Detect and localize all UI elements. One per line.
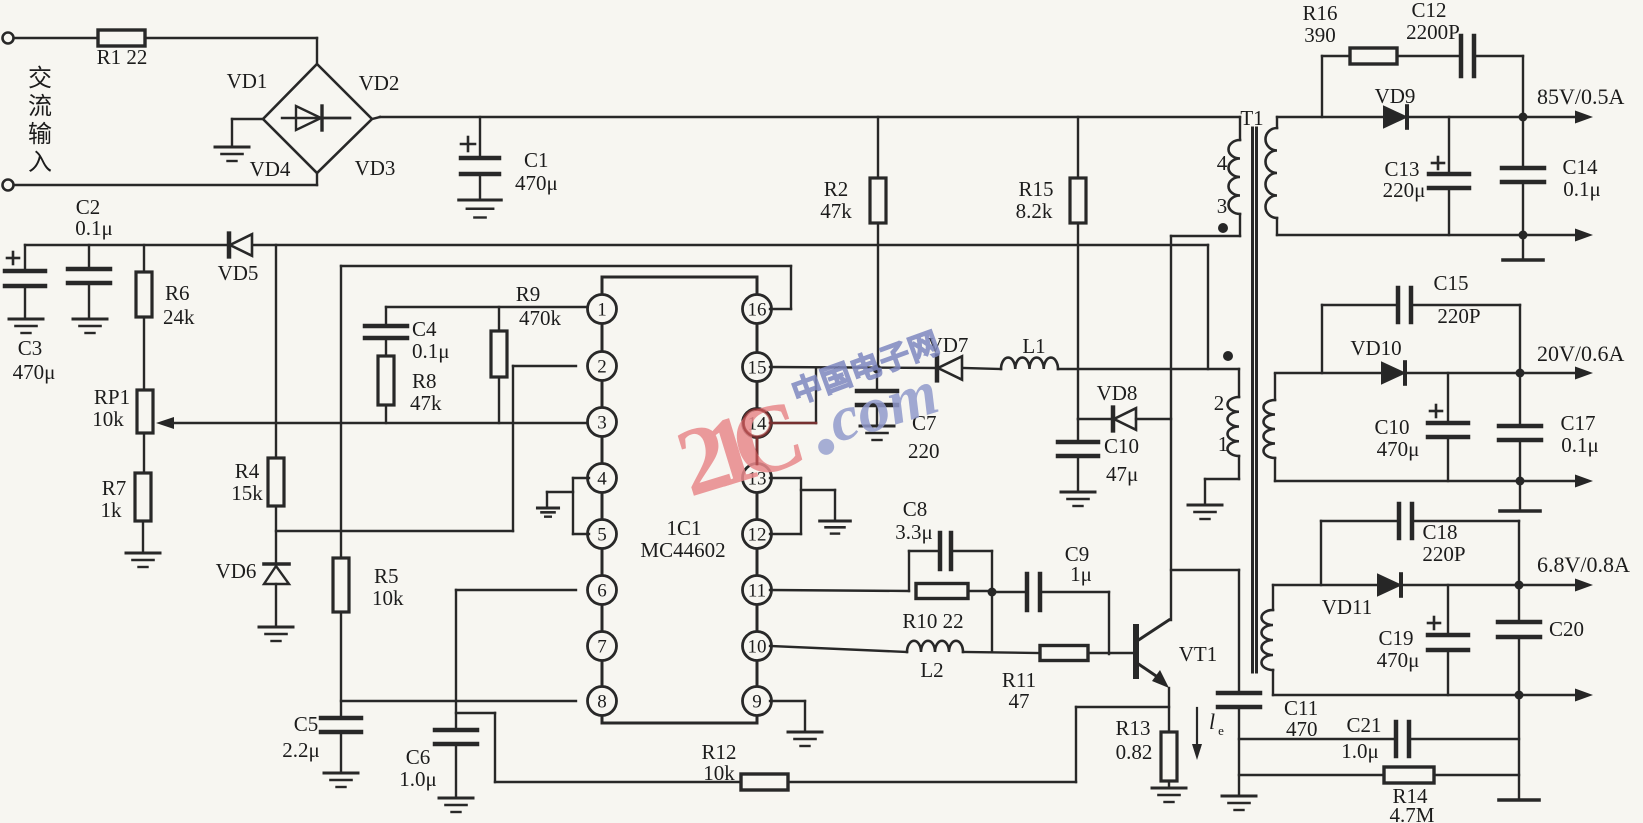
capacitor C21: [1396, 722, 1409, 756]
label C19 470u: [1377, 626, 1420, 672]
capacitor C19 (polarized): [1428, 585, 1468, 695]
svg-text:VT1: VT1: [1179, 642, 1218, 666]
IC pin 7: [588, 632, 617, 661]
wire 20V ground stub: [1519, 481, 1521, 509]
output arrow 85V: [1523, 111, 1593, 124]
wire collector to C11: [1171, 570, 1239, 691]
svg-text:47: 47: [1009, 689, 1030, 713]
capacitor C20: [1498, 585, 1540, 695]
svg-text:470k: 470k: [519, 306, 562, 330]
svg-text:T1: T1: [1240, 106, 1263, 130]
label T1: [1240, 106, 1263, 130]
wire pin9 to ground: [770, 701, 805, 730]
svg-text:R15: R15: [1018, 177, 1053, 201]
label C21 1.0u: [1341, 713, 1381, 763]
capacitor C6: [435, 730, 477, 796]
wire 85V ground stub: [1522, 235, 1524, 258]
label R14 4.7M: [1390, 784, 1435, 823]
ground below C10 47u: [1061, 492, 1095, 506]
label VD5: [218, 261, 259, 285]
svg-text:VD8: VD8: [1097, 381, 1138, 405]
capacitor C17: [1499, 373, 1541, 481]
wire pin14 link: [770, 368, 816, 423]
IC pin 5: [588, 520, 617, 549]
secondary winding 20V: [1264, 374, 1276, 481]
svg-text:入: 入: [28, 150, 52, 176]
label VD1: [227, 69, 268, 93]
svg-text:VD5: VD5: [218, 261, 259, 285]
snubber tap left: [1322, 56, 1350, 117]
label L2: [920, 658, 943, 682]
diode VD11: [1378, 574, 1401, 596]
ground pins 13-12: [820, 521, 851, 534]
svg-text:C17: C17: [1560, 411, 1595, 435]
current arrow Ie: [1192, 708, 1224, 760]
svg-text:0.1μ: 0.1μ: [75, 216, 113, 240]
transistor VT1: [1136, 620, 1169, 688]
ground below bridge left: [215, 147, 249, 161]
IC pin 9: [743, 687, 772, 716]
label R6 24k: [163, 281, 195, 329]
label 2: [1214, 391, 1225, 415]
zener diode VD6: [264, 564, 289, 625]
svg-text:15: 15: [748, 358, 767, 379]
capacitor C2: [68, 245, 110, 317]
svg-text:1μ: 1μ: [1070, 562, 1092, 586]
wire bottom input to bridge: [14, 173, 317, 185]
svg-text:5: 5: [597, 525, 607, 546]
svg-text:2: 2: [597, 357, 607, 378]
snubber C18 tap: [1321, 521, 1397, 585]
capacitor C10 470u (polarized): [1428, 373, 1468, 481]
inductor L2: [907, 641, 963, 652]
svg-text:VD11: VD11: [1322, 595, 1373, 619]
svg-text:VD6: VD6: [216, 559, 257, 583]
svg-text:C8: C8: [903, 497, 928, 521]
svg-text:16: 16: [748, 300, 767, 321]
IC pin 11: [743, 576, 772, 605]
svg-text:6.8V/0.8A: 6.8V/0.8A: [1537, 552, 1630, 577]
svg-text:R4: R4: [235, 459, 260, 483]
ground bar bottom right: [1499, 798, 1539, 802]
wire R13 to ground: [1168, 781, 1170, 786]
wire R7 to ground: [142, 521, 144, 551]
label R5 10k: [372, 564, 404, 610]
svg-text:24k: 24k: [163, 305, 195, 329]
label C10 47u: [1104, 434, 1139, 486]
wire 85V top line: [1277, 116, 1384, 118]
svg-text:470μ: 470μ: [1377, 648, 1420, 672]
label R15 8.2k: [1016, 177, 1054, 223]
svg-text:10k: 10k: [372, 586, 404, 610]
resistor R2: [870, 178, 886, 223]
wire top input to R1: [14, 37, 98, 39]
svg-text:VD3: VD3: [355, 156, 396, 180]
wire collector line lower: [1170, 419, 1172, 620]
svg-text:220P: 220P: [1422, 542, 1465, 566]
svg-text:12: 12: [748, 525, 767, 546]
ground below R13: [1152, 788, 1186, 802]
svg-text:交: 交: [28, 65, 52, 92]
label C9 1u: [1065, 542, 1092, 586]
wire pin8 line: [341, 700, 576, 702]
wire C12 to output node: [1476, 56, 1523, 117]
svg-text:C5: C5: [294, 712, 319, 736]
svg-text:R6: R6: [165, 281, 190, 305]
ground below C7: [860, 426, 894, 440]
label R9 470k: [516, 282, 562, 330]
svg-text:470μ: 470μ: [1377, 437, 1420, 461]
resistor R8: [378, 356, 394, 405]
label R8 47k: [410, 369, 442, 415]
capacitor C14: [1502, 117, 1544, 235]
label C6 1.0u: [399, 745, 437, 791]
diode VD7: [937, 356, 962, 381]
svg-text:9: 9: [752, 692, 762, 713]
label AC input (交流输入): [28, 65, 52, 176]
wire R16 to C12: [1397, 55, 1459, 57]
svg-text:11: 11: [748, 581, 766, 602]
resistor R11: [1040, 646, 1088, 661]
IC U1 MC44602 outline: [602, 277, 757, 723]
junction dot 85V return: [1519, 231, 1528, 240]
diode VD9: [1384, 106, 1407, 128]
svg-text:C12: C12: [1411, 0, 1446, 22]
wire R4 bottom node: [276, 366, 576, 563]
wire 6.8V node down: [1518, 695, 1520, 798]
label R10 22: [902, 609, 963, 633]
inductor L1: [1001, 358, 1058, 369]
red tint pin 14: [744, 410, 817, 465]
label C17 0.1u: [1560, 411, 1598, 457]
label RP1 10k: [92, 385, 130, 431]
capacitor C1 (polarized): [461, 158, 499, 198]
wire 6.8V bottom rail: [1273, 694, 1519, 696]
svg-text:47k: 47k: [820, 199, 852, 223]
svg-text:220μ: 220μ: [1383, 178, 1426, 202]
diode VD5: [229, 234, 252, 257]
svg-text:L1: L1: [1022, 334, 1045, 358]
junction dot 20V: [1516, 369, 1525, 378]
primary winding 4-3: [1229, 140, 1241, 214]
IC pin 4: [588, 464, 617, 493]
wire VD11 to node: [1402, 584, 1519, 586]
svg-text:C15: C15: [1433, 271, 1468, 295]
output arrow 6.8V: [1519, 579, 1593, 592]
svg-text:R7: R7: [102, 476, 127, 500]
wire R12 tap from C6: [456, 713, 741, 782]
svg-text:8: 8: [597, 692, 607, 713]
resistor R13: [1161, 732, 1177, 781]
wire VD9 to node: [1408, 116, 1523, 118]
wire pin15 line: [770, 367, 936, 368]
output arrow 20V return: [1520, 475, 1593, 488]
snubber C15 tap: [1322, 305, 1396, 373]
wire 20V top line: [1275, 372, 1383, 374]
label 85V/0.5A: [1537, 84, 1625, 109]
svg-text:8.2k: 8.2k: [1016, 199, 1053, 223]
label VT1: [1179, 642, 1218, 666]
svg-text:1: 1: [597, 300, 607, 321]
wire R12 to emitter node: [788, 707, 1169, 782]
secondary winding 6.8V: [1262, 585, 1274, 695]
svg-text:C10: C10: [1374, 415, 1409, 439]
IC pin 16: [743, 295, 772, 324]
wire Vcc rail left segment: [25, 244, 227, 246]
svg-text:C14: C14: [1562, 155, 1598, 179]
label R13 0.82: [1115, 716, 1152, 764]
svg-text:220P: 220P: [1437, 304, 1480, 328]
wire R5 to C5 node: [340, 612, 342, 716]
watermark com script blue: [802, 356, 946, 462]
IC pin 2: [588, 352, 617, 381]
plus sign C10 470u: [1430, 405, 1442, 417]
svg-text:10k: 10k: [703, 761, 735, 785]
wire Vcc rail drop: [1207, 245, 1209, 369]
svg-text:VD9: VD9: [1375, 84, 1416, 108]
svg-text:C1: C1: [524, 148, 549, 172]
svg-text:R16: R16: [1302, 1, 1337, 25]
watermark 21IC pink: [665, 378, 817, 517]
AC input terminal top: [3, 33, 14, 44]
wire bridge right to HV rail (main top rail): [372, 117, 1240, 119]
svg-text:R8: R8: [412, 369, 437, 393]
capacitor C10 47u: [1058, 419, 1098, 490]
IC pin 14: [743, 409, 772, 438]
wire R14 line: [1239, 774, 1384, 776]
wire L1 to winding 2: [1058, 368, 1239, 370]
svg-text:VD1: VD1: [227, 69, 268, 93]
label VD8: [1097, 381, 1138, 405]
junction dot 6.8V: [1515, 581, 1524, 590]
svg-text:C21: C21: [1346, 713, 1381, 737]
svg-text:C18: C18: [1422, 520, 1457, 544]
label 4: [1217, 151, 1228, 175]
svg-text:4: 4: [1217, 151, 1228, 175]
resistor R4: [268, 458, 284, 506]
bridge inner diode symbol: [282, 106, 350, 130]
plus sign C1: [461, 137, 475, 151]
label 1C1 MC44602: [640, 516, 725, 562]
capacitor C12: [1461, 36, 1474, 76]
svg-text:2: 2: [1214, 391, 1225, 415]
resistor R9: [491, 307, 507, 423]
wire Vcc rail right of VD5: [253, 244, 1208, 246]
label C12 2200P: [1406, 0, 1460, 44]
wire pin1 line: [386, 306, 589, 308]
wire 6.8V top line: [1273, 584, 1379, 586]
phase dot aux winding: [1223, 351, 1233, 361]
svg-text:1: 1: [1218, 432, 1229, 456]
svg-text:85V/0.5A: 85V/0.5A: [1537, 84, 1625, 109]
wire R15 down to VD8 node: [1077, 223, 1079, 419]
capacitor C15: [1398, 288, 1411, 322]
diode VD8: [1113, 408, 1136, 431]
label 20V/0.6A: [1537, 341, 1625, 366]
svg-text:C10: C10: [1104, 434, 1139, 458]
label L1: [1022, 334, 1045, 358]
wire pins 4-5 bracket: [547, 478, 589, 534]
svg-text:R13: R13: [1115, 716, 1150, 740]
svg-text:20V/0.6A: 20V/0.6A: [1537, 341, 1625, 366]
AC input terminal bottom: [3, 180, 14, 191]
resistor R10: [916, 584, 968, 599]
label C18 220P: [1422, 520, 1465, 566]
IC pin 10: [743, 632, 772, 661]
svg-text:7: 7: [597, 637, 607, 658]
plus sign C13: [1432, 157, 1444, 169]
svg-text:2200P: 2200P: [1406, 20, 1460, 44]
watermark 中国电子网 blue: [788, 326, 945, 410]
capacitor C9: [992, 574, 1109, 654]
wire R2 down to pin15 node: [877, 223, 879, 369]
label R1 22: [97, 45, 148, 69]
svg-text:输: 输: [28, 121, 52, 148]
label C13 220u: [1383, 157, 1426, 202]
wire C1 tap: [479, 117, 481, 156]
IC pin 6: [588, 576, 617, 605]
svg-text:VD10: VD10: [1350, 336, 1401, 360]
svg-text:0.1μ: 0.1μ: [412, 339, 450, 363]
svg-text:e: e: [1218, 723, 1224, 738]
label R4 15k: [231, 459, 263, 505]
label C11 470: [1284, 696, 1318, 741]
svg-text:47μ: 47μ: [1106, 462, 1138, 486]
svg-text:3: 3: [597, 413, 607, 434]
wire VD10 to node: [1406, 372, 1520, 374]
ground below VD6: [259, 627, 293, 641]
phase dot primary: [1218, 223, 1228, 233]
svg-text:1k: 1k: [101, 498, 123, 522]
svg-text:1.0μ: 1.0μ: [399, 767, 437, 791]
svg-text:R9: R9: [516, 282, 541, 306]
output arrow 6.8V return: [1519, 689, 1593, 702]
svg-text:2.2μ: 2.2μ: [282, 738, 320, 762]
label VD2: [359, 71, 400, 95]
resistor R12: [741, 774, 788, 790]
wire C18 right: [1414, 521, 1519, 585]
label C5 2.2u: [282, 712, 320, 762]
capacitor C8 loop: [909, 533, 992, 591]
label C10 470u out: [1374, 415, 1419, 461]
svg-text:470μ: 470μ: [13, 360, 56, 384]
svg-text:47k: 47k: [410, 391, 442, 415]
svg-text:R2: R2: [824, 177, 849, 201]
wire primary bottom jog to collector line: [1171, 214, 1240, 419]
output arrow 20V: [1520, 367, 1593, 380]
resistor R16: [1350, 48, 1397, 64]
wire C21 line: [1239, 738, 1394, 740]
output arrow 85V return: [1523, 229, 1593, 242]
label VD9: [1375, 84, 1416, 108]
wire 85V bottom rail: [1277, 234, 1523, 236]
label R11 47: [1002, 668, 1036, 713]
wire pins 13-12 bracket: [770, 478, 835, 534]
diode VD10: [1382, 362, 1405, 384]
junction dot 20V return: [1516, 477, 1525, 486]
svg-text:R10 22: R10 22: [902, 609, 963, 633]
resistor R5: [333, 558, 349, 612]
wire junction down to L2 line: [991, 592, 993, 652]
IC pin 13: [743, 464, 772, 493]
svg-text:C3: C3: [18, 336, 43, 360]
ground below C5: [324, 773, 358, 787]
svg-text:15k: 15k: [231, 481, 263, 505]
wire aux winding to ground: [1205, 456, 1239, 503]
junction dot 85V: [1519, 113, 1528, 122]
wire pin16 net top line: [341, 266, 791, 558]
wire L2 to R11: [963, 652, 1040, 653]
wire R14 right: [1434, 774, 1519, 776]
label R12 10k: [701, 740, 736, 785]
capacitor C11: [1218, 693, 1260, 794]
ground bar 85V: [1503, 258, 1543, 262]
svg-text:10: 10: [748, 637, 767, 658]
ground bar 20V: [1500, 509, 1540, 513]
secondary winding 85V: [1266, 117, 1278, 235]
svg-text:VD2: VD2: [359, 71, 400, 95]
svg-text:C4: C4: [412, 317, 437, 341]
label C2 0.1u: [75, 195, 113, 240]
resistor R6: [136, 272, 152, 317]
wire R6 to RP1: [143, 317, 145, 390]
junction dot C8/R10/C9: [988, 588, 997, 597]
wire VD7 to L1: [963, 368, 1001, 369]
svg-text:C20: C20: [1549, 617, 1584, 641]
capacitor C13 (polarized): [1429, 117, 1469, 235]
IC pin 3: [588, 408, 617, 437]
ground below C11: [1222, 796, 1256, 810]
svg-text:390: 390: [1304, 23, 1336, 47]
label C20: [1549, 617, 1584, 641]
capacitor C5: [321, 718, 361, 771]
bridge rectifier VD1-VD4 diamond: [263, 64, 372, 173]
junction dot 6.8V return: [1515, 691, 1524, 700]
capacitor C7: [857, 369, 897, 424]
wire RP1 to R7: [143, 433, 145, 473]
wire VT1 emitter down: [1168, 688, 1170, 732]
ground below C3: [9, 319, 43, 333]
svg-text:3.3μ: 3.3μ: [895, 520, 933, 544]
aux winding 2-1: [1228, 369, 1240, 456]
label VD6: [216, 559, 257, 583]
plus sign C19: [1428, 617, 1440, 629]
label VD7: [928, 333, 969, 357]
svg-text:0.1μ: 0.1μ: [1561, 433, 1599, 457]
capacitor C18: [1399, 504, 1412, 538]
wire C15 right: [1413, 305, 1520, 373]
IC pin 12: [743, 520, 772, 549]
label 1: [1218, 432, 1229, 456]
label C4 0.1u: [412, 317, 450, 363]
wire R10 to junction: [968, 590, 992, 592]
svg-text:R5: R5: [374, 564, 399, 588]
wire bridge left to ground: [232, 119, 263, 145]
potentiometer RP1: [137, 390, 153, 433]
label VD10: [1350, 336, 1401, 360]
wiper arrow RP1: [156, 417, 589, 429]
label VD3: [355, 156, 396, 180]
svg-text:0.1μ: 0.1μ: [1563, 177, 1601, 201]
resistor R1: [98, 30, 145, 46]
wire R15 from rail: [1077, 117, 1079, 178]
svg-text:1C1: 1C1: [666, 516, 701, 540]
svg-text:VD4: VD4: [250, 157, 291, 181]
svg-text:MC44602: MC44602: [640, 538, 725, 562]
svg-text:220: 220: [908, 439, 940, 463]
wire pin16 up-over: [770, 266, 791, 309]
label 3: [1217, 194, 1228, 218]
